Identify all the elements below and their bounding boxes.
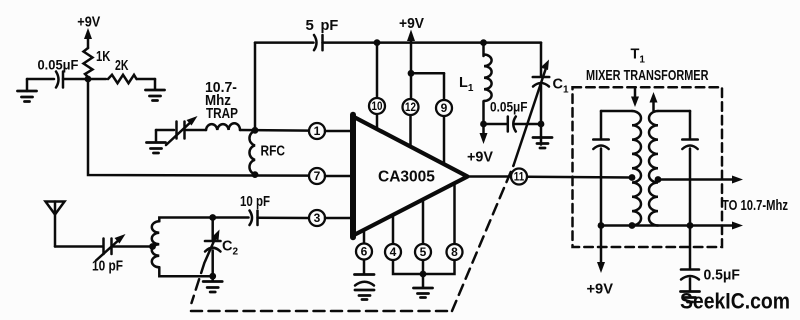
- svg-text:MIXER TRANSFORMER: MIXER TRANSFORMER: [586, 66, 709, 83]
- svg-text:L1: L1: [459, 75, 474, 94]
- svg-text:3: 3: [314, 211, 321, 225]
- svg-text:8: 8: [451, 245, 458, 259]
- svg-text:SeekIC.com: SeekIC.com: [680, 289, 790, 313]
- svg-text:10 pF: 10 pF: [92, 257, 123, 274]
- svg-text:+9V: +9V: [399, 16, 424, 33]
- svg-text:12: 12: [405, 101, 416, 114]
- svg-text:5: 5: [420, 245, 427, 259]
- svg-text:9: 9: [441, 101, 448, 115]
- svg-text:+9V: +9V: [467, 149, 493, 165]
- svg-text:+9V: +9V: [77, 12, 101, 29]
- svg-text:0.05μF: 0.05μF: [490, 100, 528, 115]
- svg-text:1: 1: [314, 124, 321, 138]
- svg-text:5: 5: [306, 17, 314, 34]
- svg-text:T1: T1: [631, 47, 646, 66]
- svg-text:7: 7: [314, 169, 321, 183]
- svg-text:C1: C1: [553, 77, 569, 96]
- svg-text:4: 4: [390, 245, 397, 259]
- svg-text:11: 11: [514, 171, 524, 184]
- svg-text:+9V: +9V: [587, 281, 614, 297]
- svg-text:TO 10.7-Mhz: TO 10.7-Mhz: [722, 196, 788, 213]
- svg-text:6: 6: [361, 245, 368, 259]
- svg-text:2K: 2K: [115, 56, 129, 73]
- svg-text:RFC: RFC: [261, 142, 286, 159]
- svg-text:C2: C2: [222, 239, 238, 258]
- svg-text:10: 10: [372, 100, 383, 113]
- svg-text:pF: pF: [321, 18, 339, 34]
- svg-text:1K: 1K: [96, 47, 111, 64]
- svg-text:TRAP: TRAP: [206, 105, 238, 122]
- svg-text:10 pF: 10 pF: [240, 193, 270, 210]
- svg-text:CA3005: CA3005: [378, 168, 435, 185]
- svg-text:0.05μF: 0.05μF: [38, 57, 79, 72]
- svg-text:0.5μF: 0.5μF: [704, 267, 741, 283]
